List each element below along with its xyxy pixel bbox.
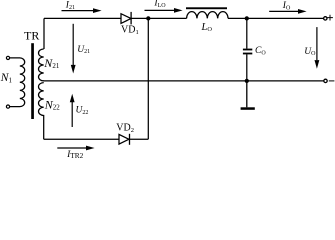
svg-text:ITR2: ITR2 — [66, 150, 83, 158]
primary terminal bottom — [6, 105, 9, 108]
terminal plus circle — [324, 17, 327, 20]
wire top rail left — [44, 17, 121, 19]
primary terminal top — [6, 56, 9, 59]
svg-text:I21: I21 — [65, 1, 75, 11]
svg-text:N1: N1 — [0, 72, 12, 84]
node A junction dot — [146, 16, 150, 20]
current arrow ILO — [145, 8, 183, 13]
diode VD2 — [119, 134, 129, 144]
capacitor Co stem bottom — [246, 54, 248, 81]
wire bottom rail left — [44, 138, 119, 140]
capacitor Co plates — [243, 49, 252, 55]
capacitor Co stem top — [246, 18, 248, 48]
current arrow Io — [269, 9, 306, 14]
svg-text:UO: UO — [304, 47, 316, 57]
svg-text:U21: U21 — [77, 45, 90, 55]
svg-text:ILO: ILO — [153, 0, 166, 9]
voltage arrow Uo — [315, 27, 320, 69]
wire inductor to terminal — [228, 17, 324, 19]
svg-text:N22: N22 — [44, 97, 61, 111]
wire VD2 cathode to vertical — [129, 138, 148, 140]
svg-text:TR: TR — [24, 28, 39, 42]
secondary winding N21 — [39, 49, 44, 81]
terminal minus circle — [324, 79, 327, 82]
transformer TR core — [31, 43, 34, 119]
inductor Lo winding — [187, 12, 228, 19]
secondary winding N22 — [39, 83, 44, 140]
svg-text:VD2: VD2 — [116, 123, 134, 134]
plus sign — [327, 15, 333, 21]
wire secondary top lead — [43, 18, 45, 49]
voltage arrow U22 — [70, 94, 75, 127]
current arrow I21 — [62, 8, 102, 13]
svg-text:LO: LO — [201, 22, 213, 33]
svg-text:N21: N21 — [43, 56, 60, 70]
svg-text:VD1: VD1 — [121, 25, 139, 36]
return rail wire — [43, 80, 324, 82]
wire VD1 cathode to inductor — [131, 17, 186, 19]
inductor Lo core bar — [186, 7, 227, 9]
svg-text:U22: U22 — [76, 106, 89, 116]
ground — [246, 81, 248, 107]
svg-text:CO: CO — [255, 46, 266, 56]
current arrow ITR2 — [57, 146, 94, 151]
diode VD1 — [121, 14, 131, 24]
primary winding N1 — [10, 58, 25, 107]
minus sign — [329, 80, 335, 82]
svg-text:IO: IO — [282, 1, 291, 11]
node B junction dot — [245, 16, 249, 20]
voltage arrow U21 — [71, 24, 76, 74]
wire rectifier output vertical — [147, 18, 149, 139]
node C junction dot — [245, 79, 249, 83]
